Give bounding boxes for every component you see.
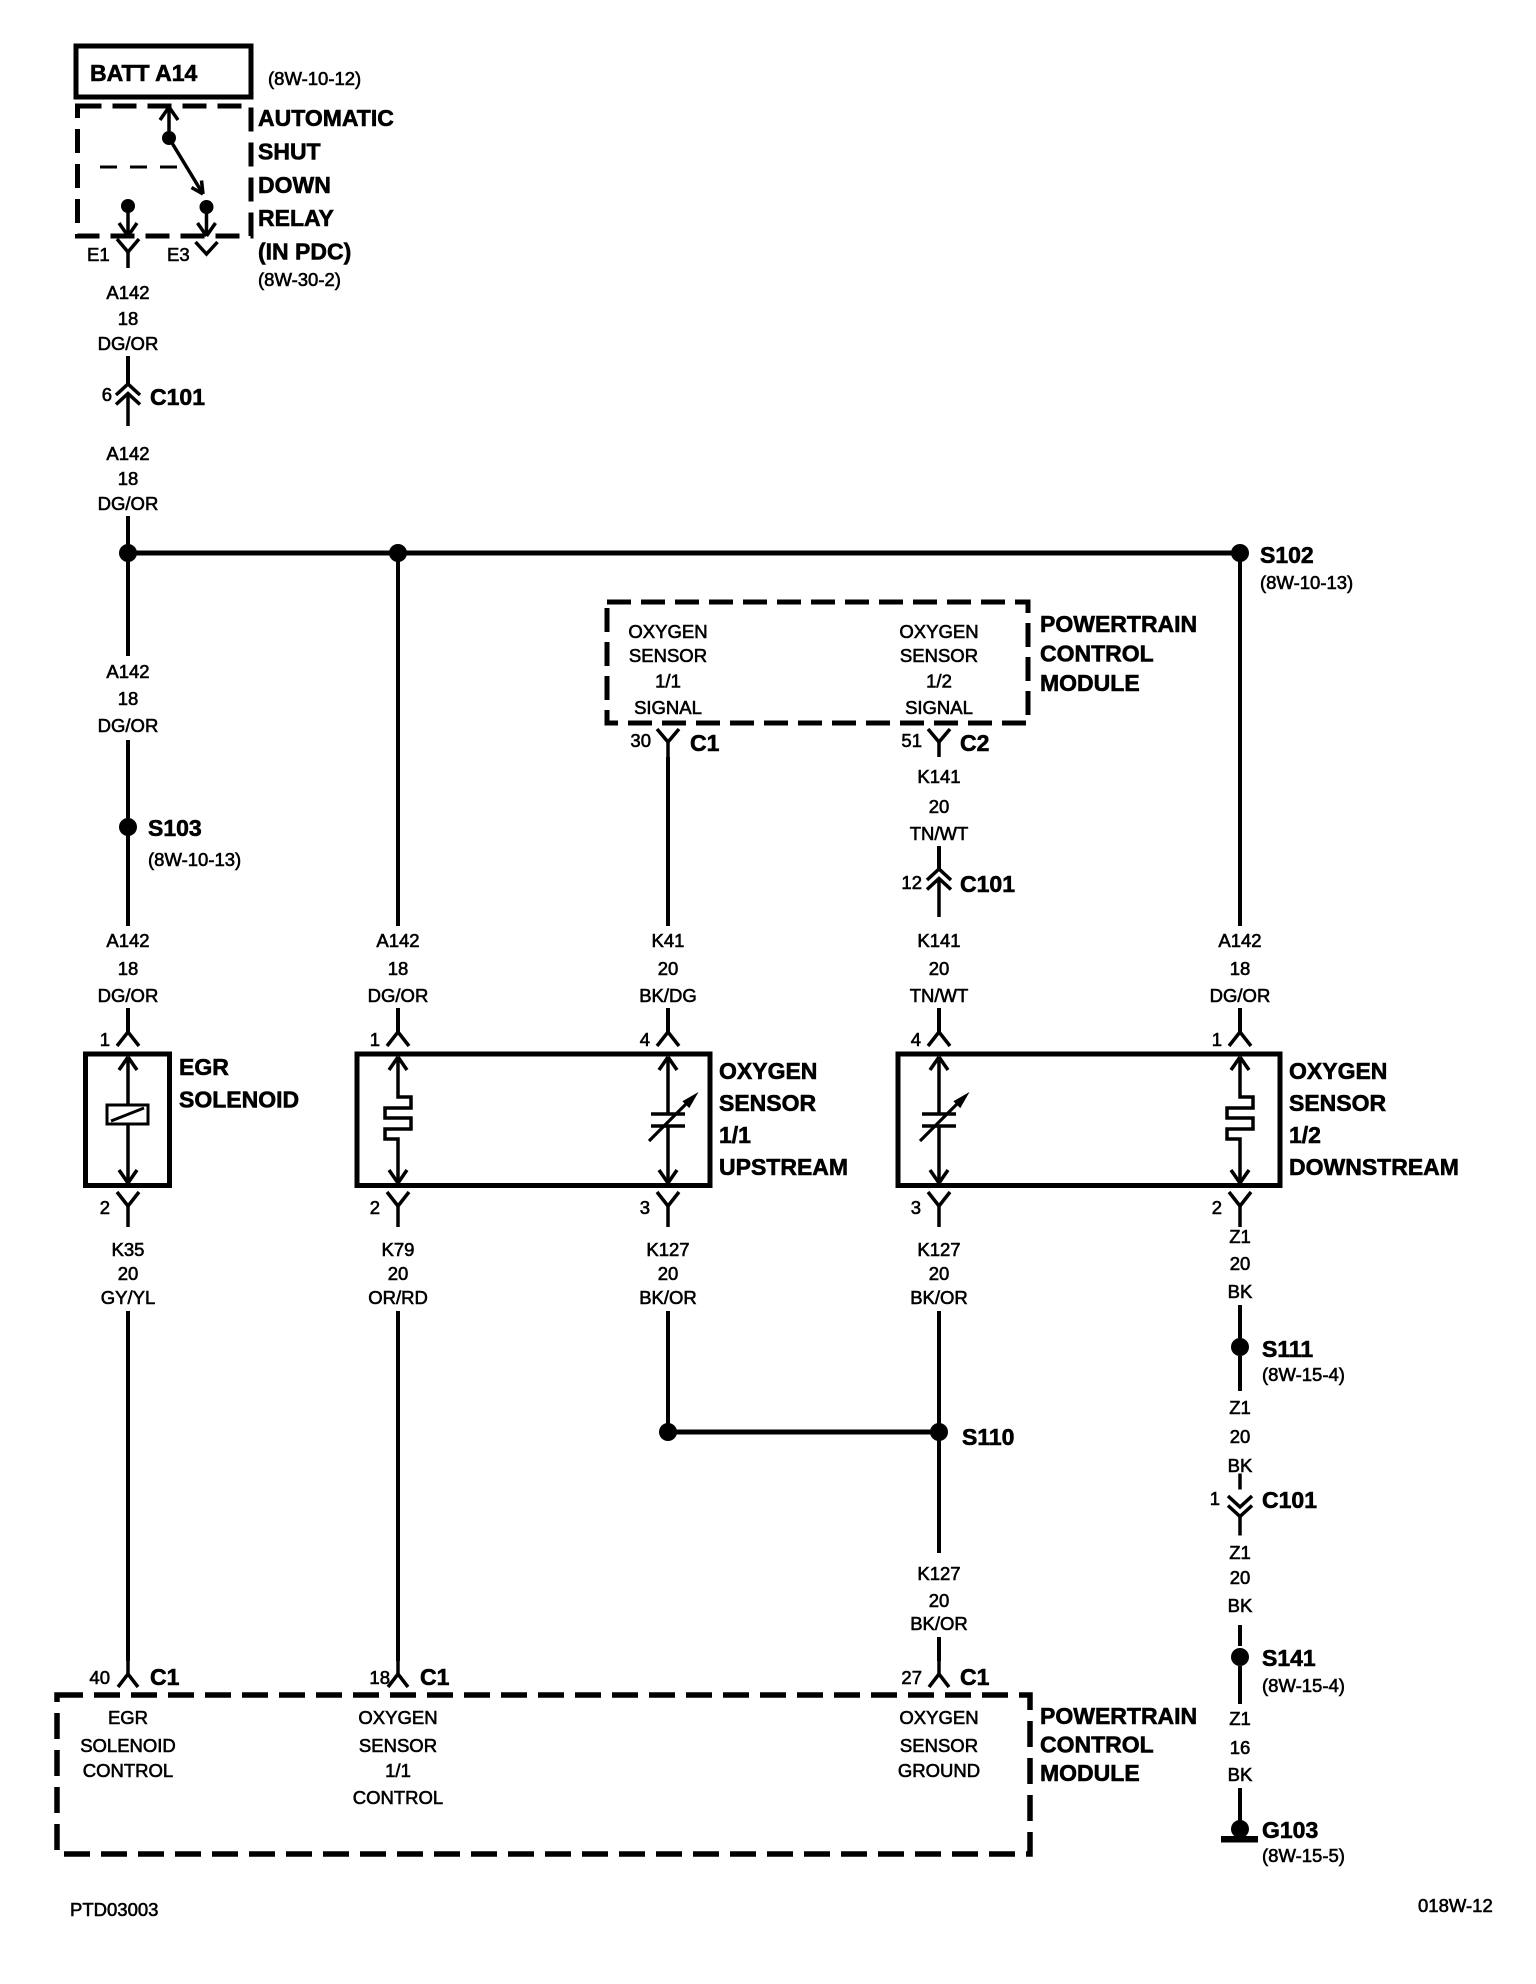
svg-text:20: 20 [388,1263,409,1284]
svg-text:12: 12 [901,872,922,893]
svg-text:27: 27 [901,1667,922,1688]
svg-text:EGR: EGR [108,1707,148,1728]
svg-text:CONTROL: CONTROL [1040,1732,1154,1758]
svg-text:DG/OR: DG/OR [98,985,159,1006]
svg-text:C2: C2 [960,730,989,756]
svg-text:(8W-15-5): (8W-15-5) [1262,1845,1345,1866]
svg-text:S141: S141 [1262,1645,1316,1671]
svg-text:(IN PDC): (IN PDC) [258,239,351,265]
svg-text:K141: K141 [917,766,960,787]
svg-text:Z1: Z1 [1229,1708,1251,1729]
svg-text:(8W-10-13): (8W-10-13) [148,849,241,870]
svg-text:K35: K35 [112,1239,145,1260]
svg-text:E3: E3 [167,244,190,265]
svg-text:POWERTRAIN: POWERTRAIN [1040,611,1197,637]
svg-text:S102: S102 [1260,542,1314,568]
svg-text:MODULE: MODULE [1040,670,1140,696]
svg-text:K41: K41 [652,930,685,951]
svg-text:1/2: 1/2 [1289,1122,1321,1148]
svg-text:SIGNAL: SIGNAL [634,697,702,718]
svg-text:18: 18 [118,688,139,709]
svg-text:K141: K141 [917,930,960,951]
svg-text:2: 2 [370,1197,380,1218]
svg-text:A142: A142 [106,443,149,464]
svg-text:TN/WT: TN/WT [910,985,969,1006]
svg-text:A142: A142 [106,282,149,303]
svg-text:DOWNSTREAM: DOWNSTREAM [1289,1154,1459,1180]
svg-text:(8W-15-4): (8W-15-4) [1262,1364,1345,1385]
svg-text:BATT A14: BATT A14 [90,60,198,86]
svg-text:K127: K127 [917,1563,960,1584]
svg-text:SENSOR: SENSOR [900,1735,978,1756]
svg-text:1: 1 [370,1029,380,1050]
svg-text:CONTROL: CONTROL [353,1787,443,1808]
svg-text:20: 20 [658,1263,679,1284]
svg-text:Z1: Z1 [1229,1397,1251,1418]
svg-text:1/1: 1/1 [655,671,681,692]
svg-text:BK/OR: BK/OR [910,1613,968,1634]
svg-text:3: 3 [911,1197,921,1218]
svg-text:G103: G103 [1262,1817,1318,1843]
svg-text:OR/RD: OR/RD [368,1287,428,1308]
svg-text:OXYGEN: OXYGEN [899,1707,978,1728]
svg-text:A142: A142 [376,930,419,951]
svg-text:RELAY: RELAY [258,205,334,231]
svg-text:SENSOR: SENSOR [719,1090,817,1116]
svg-text:4: 4 [640,1029,650,1050]
svg-text:DG/OR: DG/OR [98,333,159,354]
svg-text:DG/OR: DG/OR [368,985,429,1006]
svg-text:POWERTRAIN: POWERTRAIN [1040,1703,1197,1729]
svg-text:20: 20 [1230,1567,1251,1588]
svg-text:PTD03003: PTD03003 [70,1899,158,1920]
svg-text:A142: A142 [106,930,149,951]
svg-text:S103: S103 [148,815,202,841]
svg-text:40: 40 [89,1667,110,1688]
svg-text:(8W-10-12): (8W-10-12) [268,68,361,89]
svg-text:SENSOR: SENSOR [1289,1090,1387,1116]
svg-text:C101: C101 [960,871,1015,897]
svg-text:20: 20 [929,796,950,817]
svg-text:MODULE: MODULE [1040,1760,1140,1786]
svg-text:EGR: EGR [179,1054,229,1080]
svg-text:(8W-15-4): (8W-15-4) [1262,1675,1345,1696]
svg-text:OXYGEN: OXYGEN [628,621,707,642]
svg-text:K127: K127 [917,1239,960,1260]
svg-text:(8W-30-2): (8W-30-2) [258,269,341,290]
svg-text:SHUT: SHUT [258,138,321,164]
svg-text:SIGNAL: SIGNAL [905,697,973,718]
svg-text:OXYGEN: OXYGEN [719,1058,817,1084]
svg-text:1: 1 [1210,1488,1220,1509]
svg-text:2: 2 [1212,1197,1222,1218]
svg-text:AUTOMATIC: AUTOMATIC [258,105,394,131]
svg-text:18: 18 [388,958,409,979]
svg-text:51: 51 [901,730,922,751]
svg-text:OXYGEN: OXYGEN [1289,1058,1387,1084]
svg-text:TN/WT: TN/WT [910,823,969,844]
svg-text:20: 20 [1230,1253,1251,1274]
svg-text:1/1: 1/1 [385,1760,411,1781]
svg-text:18: 18 [118,958,139,979]
svg-text:20: 20 [658,958,679,979]
svg-text:DG/OR: DG/OR [1210,985,1271,1006]
svg-text:018W-12: 018W-12 [1418,1895,1493,1916]
svg-text:BK: BK [1228,1455,1253,1476]
svg-text:CONTROL: CONTROL [83,1760,173,1781]
svg-text:OXYGEN: OXYGEN [899,621,978,642]
svg-text:1: 1 [1212,1029,1222,1050]
svg-text:GY/YL: GY/YL [101,1287,156,1308]
svg-text:16: 16 [1230,1737,1251,1758]
svg-text:A142: A142 [106,661,149,682]
svg-text:Z1: Z1 [1229,1226,1251,1247]
svg-text:SENSOR: SENSOR [900,645,978,666]
svg-text:S111: S111 [1262,1336,1313,1362]
svg-text:BK: BK [1228,1281,1253,1302]
svg-text:UPSTREAM: UPSTREAM [719,1154,848,1180]
svg-text:DOWN: DOWN [258,172,331,198]
svg-text:30: 30 [630,730,651,751]
svg-text:C1: C1 [960,1664,990,1690]
svg-text:K79: K79 [382,1239,415,1260]
svg-text:OXYGEN: OXYGEN [358,1707,437,1728]
svg-text:BK: BK [1228,1595,1253,1616]
svg-text:1/1: 1/1 [719,1122,751,1148]
svg-text:20: 20 [929,1590,950,1611]
svg-text:18: 18 [369,1667,390,1688]
svg-text:K127: K127 [646,1239,689,1260]
svg-text:6: 6 [102,384,112,405]
svg-text:DG/OR: DG/OR [98,493,159,514]
svg-text:SOLENOID: SOLENOID [80,1735,176,1756]
svg-text:CONTROL: CONTROL [1040,641,1154,667]
svg-text:DG/OR: DG/OR [98,715,159,736]
svg-text:S110: S110 [962,1424,1014,1450]
svg-text:SOLENOID: SOLENOID [179,1087,299,1113]
svg-text:20: 20 [929,1263,950,1284]
svg-text:2: 2 [100,1197,110,1218]
svg-text:C1: C1 [150,1664,180,1690]
svg-text:E1: E1 [87,244,110,265]
svg-text:18: 18 [1230,958,1251,979]
svg-text:1: 1 [100,1029,110,1050]
svg-text:C101: C101 [150,384,205,410]
svg-text:18: 18 [118,468,139,489]
svg-text:C101: C101 [1262,1487,1317,1513]
svg-text:SENSOR: SENSOR [359,1735,437,1756]
svg-text:BK/DG: BK/DG [639,985,697,1006]
svg-text:Z1: Z1 [1229,1542,1251,1563]
svg-text:4: 4 [911,1029,921,1050]
svg-text:BK: BK [1228,1764,1253,1785]
svg-text:20: 20 [118,1263,139,1284]
svg-text:A142: A142 [1218,930,1261,951]
svg-text:(8W-10-13): (8W-10-13) [1260,572,1353,593]
svg-text:BK/OR: BK/OR [910,1287,968,1308]
svg-text:20: 20 [929,958,950,979]
svg-text:20: 20 [1230,1426,1251,1447]
svg-text:SENSOR: SENSOR [629,645,707,666]
svg-text:C1: C1 [690,730,720,756]
svg-text:18: 18 [118,308,139,329]
svg-text:1/2: 1/2 [926,671,952,692]
svg-text:GROUND: GROUND [898,1760,980,1781]
svg-text:C1: C1 [420,1664,450,1690]
svg-text:BK/OR: BK/OR [639,1287,697,1308]
svg-text:3: 3 [640,1197,650,1218]
